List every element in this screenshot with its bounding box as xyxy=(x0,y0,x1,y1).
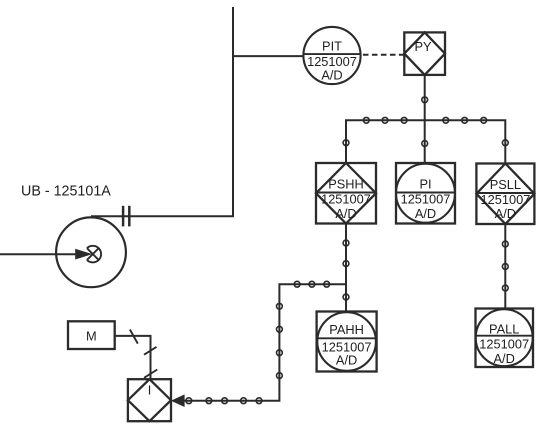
svg-text:PIT: PIT xyxy=(322,39,342,54)
svg-text:PSLL: PSLL xyxy=(490,177,521,192)
svg-text:PALL: PALL xyxy=(489,322,519,337)
svg-text:1251007: 1251007 xyxy=(321,192,371,207)
alarm PAHH 1251007 xyxy=(317,312,377,372)
transmitter PIT 1251007 xyxy=(303,27,360,84)
svg-text:A/D: A/D xyxy=(495,206,516,221)
switch PSLL 1251007 xyxy=(476,164,534,225)
wire: M to interlock I xyxy=(115,336,151,380)
pump impeller symbol xyxy=(87,246,101,263)
wire: branch to PIT xyxy=(233,55,304,57)
svg-text:1251007: 1251007 xyxy=(480,192,530,207)
wire: main process line (vertical + pump top run) xyxy=(91,7,233,216)
svg-text:A/D: A/D xyxy=(415,206,436,221)
switch PSHH 1251007 xyxy=(316,163,376,224)
svg-text:A/D: A/D xyxy=(335,206,356,221)
wire: PY down to PI xyxy=(424,75,426,164)
data link circles PSHH-PAHH xyxy=(343,240,349,300)
wire: pump inlet line xyxy=(0,253,77,255)
wire: dashed signal line PIT to PY xyxy=(361,54,405,56)
svg-text:1251007: 1251007 xyxy=(479,337,529,352)
data link circles on PY vertical xyxy=(422,97,428,147)
hatch slash 2 on vertical xyxy=(144,347,157,355)
indicator PI 1251007 xyxy=(396,163,455,224)
interlock I xyxy=(128,379,171,421)
data link circles PSLL-PALL xyxy=(502,241,508,291)
pump P-101 body xyxy=(56,217,126,287)
svg-text:PI: PI xyxy=(419,177,431,192)
hatch slash 1 on horizontal xyxy=(130,330,138,344)
svg-text:PY: PY xyxy=(414,39,432,54)
svg-text:A/D: A/D xyxy=(336,353,357,368)
pump inlet arrowhead xyxy=(75,249,92,260)
svg-text:A/D: A/D xyxy=(321,68,342,83)
data link circles on bus xyxy=(343,117,508,145)
data link circles on branch xyxy=(294,281,329,287)
data link circles on left leg xyxy=(277,303,283,378)
svg-text:1251007: 1251007 xyxy=(401,192,451,207)
svg-text:PAHH: PAHH xyxy=(329,322,364,337)
svg-text:PSHH: PSHH xyxy=(328,177,364,192)
svg-text:A/D: A/D xyxy=(494,351,515,366)
wire: branch left and down to interlock xyxy=(185,284,347,401)
svg-text:UB - 125101A: UB - 125101A xyxy=(21,184,111,200)
alarm PALL 1251007 xyxy=(476,309,534,368)
relay PY xyxy=(404,32,445,75)
wire: PSLL down to PALL xyxy=(504,224,506,309)
svg-text:M: M xyxy=(86,329,97,344)
svg-text:I: I xyxy=(148,383,152,398)
motor M box xyxy=(68,321,115,349)
capacitor-style line break symbol xyxy=(123,206,129,227)
wire: signal bus horizontal with drops xyxy=(346,120,505,163)
wire: PSHH down to PAHH xyxy=(345,224,347,312)
arrowhead into interlock I xyxy=(171,394,185,407)
data link circles on bottom leg xyxy=(186,398,262,404)
hatch slash 3 on vertical xyxy=(144,370,157,378)
